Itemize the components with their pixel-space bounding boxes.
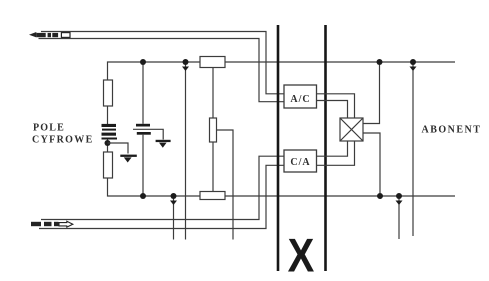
node bottom x=399	[396, 193, 402, 199]
wire R3 to R4	[212, 68, 214, 119]
wire: node to ground G1	[108, 143, 129, 154]
resistor R3 (horizontal, on top rail)	[200, 57, 225, 68]
stub wire hanging from top-rail node x=185.5	[185, 62, 187, 240]
resistor R5 (horizontal, on bottom rail)	[200, 192, 225, 200]
mixer / hybrid M1 (crossed square)	[340, 118, 363, 141]
svg-text:POLE: POLE	[33, 123, 65, 134]
node top x=379.5	[377, 59, 383, 65]
node top x=143	[140, 59, 146, 65]
wire: C/A lower output to mixer bottom	[317, 141, 355, 165]
ground G1	[120, 155, 137, 163]
C/A converter box U2	[284, 150, 317, 172]
direction tick below node x=413	[410, 67, 417, 72]
ground G2	[156, 140, 171, 148]
wire: upper send pair conductor, y=219.5 up to C/A upper input	[41, 156, 284, 219]
wire: bottom return rail y=196	[108, 178, 456, 196]
svg-text:X: X	[288, 231, 315, 281]
capacitor C2 middle electrode to ground G2	[133, 129, 163, 139]
stub wire hanging from bottom-rail node x=173.5	[173, 196, 175, 240]
wire: lower receive pair conductor, y=38.5 to A/C lower input	[39, 39, 285, 102]
wire: mixer upper right port to top rail	[363, 62, 380, 124]
svg-text:CYFROWE: CYFROWE	[32, 135, 94, 146]
wire: A/C upper output to mixer top	[317, 94, 355, 118]
subscriber line vertical from top-rail node x=413	[412, 62, 414, 236]
node bottom x=173.5	[171, 193, 177, 199]
wire: top supply rail y=62	[108, 62, 456, 80]
node bottom x=143	[140, 193, 146, 199]
resistor R1 (left branch, vertical)	[104, 80, 113, 106]
node top x=413	[410, 59, 416, 65]
arrowhead of subscriber incoming bus (bottom-left, hollow, pointing right)	[59, 221, 73, 227]
wire: mixer lower right port to bottom rail	[363, 133, 380, 196]
direction tick below node x=185.5	[182, 67, 189, 72]
arrowhead of digital-field outgoing bus (top-left, filled, pointing left)	[29, 32, 36, 37]
node bottom x=380	[377, 193, 383, 199]
wire: upper receive pair conductor, y=31.5 to A/C upper input	[41, 32, 284, 94]
resistor R4 (middle vertical)	[210, 118, 217, 142]
node dots on top rail	[140, 59, 416, 199]
direction tick below node x=399	[396, 201, 403, 206]
battery/stacked capacitor C1 (four plates)	[102, 124, 118, 140]
line boundary separator (left thick vertical)	[277, 25, 280, 271]
dashed shaft of top-left bus arrow	[36, 33, 58, 37]
wire R4 to R5	[212, 142, 214, 192]
label X (crossed-out section mark)	[288, 231, 315, 281]
wire: tap from R4 right side down	[217, 130, 234, 240]
wire: lower send pair conductor, y=228.5 up to C/A lower input	[39, 165, 284, 228]
resistor R2 (left branch lower, vertical)	[104, 152, 113, 178]
stub wire hanging from bottom-rail node x=399	[398, 196, 400, 239]
wire: capacitor C2 branch from top rail	[142, 62, 144, 124]
A/C converter box U1	[284, 85, 317, 108]
wire: A/C lower output to mixer top	[317, 101, 348, 119]
wire stack to node/R2	[107, 140, 109, 153]
svg-text:ABONENT: ABONENT	[422, 125, 482, 136]
dashed shaft of bottom-left bus arrow	[31, 222, 59, 226]
direction tick below node x=173.5	[170, 201, 177, 206]
capacitor C2 bottom plate	[137, 132, 151, 135]
wire: C2 bottom plate to bottom rail	[142, 135, 144, 196]
line boundary separator (right thick vertical)	[324, 25, 327, 271]
node top x=185.5	[183, 59, 189, 65]
wire: C/A upper output to mixer bottom	[317, 141, 348, 156]
svg-text:A/C: A/C	[290, 94, 310, 105]
node: junction dot left branch	[105, 140, 111, 146]
wire R1 to battery stack	[107, 106, 109, 124]
capacitor C2 top plate	[136, 124, 150, 127]
svg-text:C/A: C/A	[290, 157, 310, 168]
